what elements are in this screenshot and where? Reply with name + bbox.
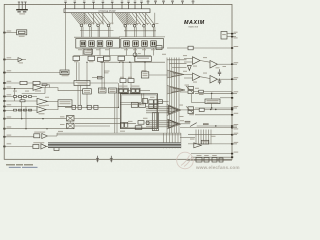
wire comp feeds: [184, 59, 193, 79]
buffer A7: [210, 61, 232, 69]
pin COMP lead: [3, 70, 60, 73]
sample hold box B4: [219, 158, 223, 162]
ground foot right: [23, 11, 26, 12]
svg-text:MAXIM: MAXIM: [184, 20, 205, 26]
transistor Q7: [142, 41, 148, 47]
pin CLK1 lead: [227, 32, 238, 35]
pin CTLI lead: [3, 117, 66, 120]
node junction J1: [119, 62, 120, 63]
current sense box CS2: [135, 56, 152, 61]
transistor Q4: [107, 41, 113, 47]
wire bus vertical left: [15, 89, 26, 129]
comparator hysteresis box: [152, 113, 158, 131]
comparator A8: [193, 73, 211, 81]
wire r11 link: [92, 77, 104, 79]
node junction J4: [21, 96, 22, 97]
pin IN1 lead: [3, 94, 37, 97]
wire reg out: [158, 101, 169, 103]
resistor R11: [98, 76, 103, 79]
capacitor C5: [218, 79, 221, 85]
compensation box U21: [60, 70, 69, 76]
node junction J5b: [42, 118, 43, 119]
resistor row RB2: [128, 79, 134, 83]
pin REF lead: [3, 31, 16, 34]
mux box U24: [143, 99, 148, 104]
transistor pair Q10: [186, 106, 194, 113]
pin OS2 lead: [3, 143, 33, 147]
wire fan F2: [167, 86, 185, 95]
wire A1 feedback: [22, 88, 45, 94]
wire digital col: [115, 83, 119, 133]
node junction J6: [25, 128, 26, 129]
gate driver D8: [152, 25, 155, 37]
cluster box k1: [135, 121, 149, 130]
current sense box CS1: [98, 57, 104, 61]
oscillator U20: [221, 32, 227, 40]
wire A3 out: [46, 107, 58, 110]
wire bundle right: [196, 130, 211, 145]
wire lx sense drop A: [102, 62, 104, 89]
pin tick PGND group right: [147, 2, 195, 5]
wire A1 out: [46, 88, 83, 91]
current source I1: [133, 48, 137, 62]
svg-text:www.elecfans.com: www.elecfans.com: [195, 165, 240, 170]
comparator A6: [193, 57, 211, 65]
wire LX1 drops: [83, 48, 110, 56]
label q10: [189, 114, 194, 115]
IC outline border: [4, 4, 232, 159]
sample hold box B2: [204, 155, 209, 162]
resistor R9: [20, 81, 27, 84]
svg-text:MAX1968: MAX1968: [189, 25, 199, 28]
control core box U28: [120, 94, 157, 129]
comparator A10: [194, 143, 202, 148]
node junction J3: [14, 88, 15, 89]
sense amp box U22: [99, 88, 107, 93]
gate driver D3: [97, 24, 100, 37]
wire band lower bus: [48, 143, 181, 148]
latch pair U26: [121, 123, 128, 128]
wire q10 link: [192, 94, 205, 103]
op-amp A2: [37, 98, 48, 106]
pin tick CPVDD group over charge pump: [64, 2, 143, 9]
wire right low rows: [180, 128, 232, 144]
buffer A11: [42, 134, 57, 139]
capacitor C2: [21, 2, 23, 9]
charge pump U1: [64, 9, 150, 13]
resistor RS2: [88, 56, 95, 60]
wire fan right gate drive: [115, 13, 155, 25]
transistor Q6: [133, 41, 139, 47]
wire fan left gate drive: [71, 13, 111, 24]
right pin ticks and labels: [231, 46, 238, 158]
wire switch out: [70, 119, 120, 127]
wire osc: [145, 62, 167, 75]
capacitor C4: [218, 69, 221, 76]
node LX bus: [74, 55, 152, 57]
buffer U5: [18, 58, 26, 64]
pin FB lead: [3, 87, 33, 90]
gate driver D4: [107, 24, 110, 37]
pin CLK2 lead: [227, 36, 238, 39]
logic block U11: [118, 86, 128, 94]
watermark circle logo: [177, 152, 194, 169]
wire thermal: [77, 62, 119, 83]
bias box U9: [84, 49, 93, 54]
resistor row small r2: [78, 105, 81, 109]
ground foot left: [17, 11, 20, 12]
sample hold box B3: [212, 155, 217, 162]
footnote line 2: [9, 167, 38, 168]
wire fan F4: [167, 119, 181, 129]
wire dac top: [86, 62, 88, 107]
wire center rail drop: [64, 4, 66, 70]
snubber box U27: [156, 46, 162, 50]
pin IN2 lead: [3, 100, 37, 102]
wire rb row: [123, 62, 131, 88]
wire band upper: [57, 133, 181, 136]
sample cap box: [54, 146, 59, 151]
node junction J9: [210, 109, 211, 110]
wire rc2 link: [16, 109, 37, 111]
oscillator box U10: [141, 72, 149, 78]
wire logic bus: [120, 103, 141, 105]
chopper amp U6: [58, 100, 72, 107]
wire bus pillar: [167, 58, 179, 134]
pwm logic U14: [139, 103, 146, 107]
wire q9: [180, 90, 199, 93]
node junction dots bus: [86, 62, 145, 108]
sample box U19: [33, 142, 44, 148]
resistor RS3: [103, 56, 110, 60]
wire A2 out: [48, 100, 59, 102]
pin ITEC lead: [3, 81, 74, 84]
pin OS1 lead: [3, 135, 34, 138]
wire aux right 1: [220, 97, 233, 99]
wire q10 out: [194, 109, 233, 111]
reference divider U16: [205, 99, 220, 104]
switch S2: [67, 123, 75, 129]
resistor row small r4: [94, 105, 98, 109]
wire mid feed lower: [146, 121, 169, 127]
output stage U2 box: [76, 39, 120, 48]
gate driver D5: [124, 25, 127, 37]
capacitor plate bar: [16, 9, 28, 11]
node junction J7: [211, 93, 212, 94]
op-amp A3: [37, 107, 46, 115]
buffer A9: [210, 76, 232, 84]
resistor RS1: [73, 56, 80, 60]
resistor row small r3: [87, 105, 91, 109]
wire aux right 2: [195, 113, 238, 116]
resistor row small r1: [72, 105, 76, 109]
comparator A5: [169, 120, 190, 128]
wire ref row: [195, 93, 232, 108]
ground label: [19, 13, 25, 14]
thermal shutdown U8: [74, 81, 90, 86]
transistor pair Q9: [186, 86, 194, 94]
node rail PWM2: [119, 36, 165, 38]
wire mid feed upper: [146, 107, 169, 113]
buffer A12: [41, 144, 54, 149]
logic block U12: [131, 86, 141, 94]
sense amp box U23: [109, 88, 117, 93]
transistor Q5: [124, 41, 130, 47]
mux box U25: [158, 100, 163, 104]
wire fan drops left: [84, 13, 112, 24]
sample box U18: [34, 132, 45, 138]
logic box U17: [201, 140, 209, 144]
resistor R4: [20, 100, 25, 102]
switch S3: [185, 121, 232, 126]
capacitor C3: [24, 2, 26, 9]
capacitor C1: [18, 2, 20, 9]
wire fan F1: [167, 70, 184, 78]
wire bundle lower pillar: [164, 133, 181, 148]
gate driver D7: [143, 25, 146, 37]
wire gate row link left: [80, 27, 114, 38]
wire fan F3: [167, 105, 181, 116]
resistor chain RC2: [14, 109, 32, 111]
register bank U15: [149, 100, 158, 108]
pin SHDN lead: [3, 57, 18, 60]
resistor R6: [188, 46, 193, 50]
node bus shade: [48, 142, 181, 148]
wire LX2 drops: [127, 48, 154, 56]
pin number labels top: [64, 0, 194, 1]
ground pin GP1: [96, 156, 99, 163]
pin MAXI lead: [3, 127, 66, 130]
transistor Q3: [97, 41, 103, 47]
footnote line 1: [6, 164, 33, 165]
node junction J6b: [46, 128, 47, 129]
wire out TH: [203, 91, 232, 93]
gate driver D6: [133, 25, 136, 37]
ground pin GP2: [110, 156, 113, 163]
wire thermal drops lower: [78, 86, 81, 106]
gate driver D2: [89, 24, 92, 37]
value labels scattered: [13, 23, 226, 140]
node rail PWM1: [74, 36, 120, 38]
wire gate row link right: [124, 27, 156, 37]
node junction J11: [215, 125, 216, 126]
wire pillar taps: [167, 60, 187, 68]
resistor chain RC1: [14, 96, 32, 98]
resistor R8: [199, 108, 204, 111]
voltage reference U4: [17, 30, 27, 37]
resistor R10: [33, 81, 40, 84]
node junction J8: [211, 107, 212, 108]
pin IN3 lead: [3, 104, 37, 107]
op-amp A1: [33, 85, 42, 92]
output stage U3 box: [121, 39, 164, 48]
comparator A4: [169, 106, 188, 114]
wire fan drops right: [127, 13, 155, 25]
bottom right circuit row wire: [186, 154, 232, 161]
node junction J10: [215, 109, 216, 110]
transistor Q1: [80, 41, 86, 47]
wire row link: [65, 106, 118, 108]
resistor row RB1: [120, 79, 126, 83]
wire sense bus: [100, 60, 165, 62]
resistor RS4: [118, 56, 125, 60]
resistor R3 feedback: [42, 84, 50, 88]
resistor R7: [199, 90, 204, 93]
node junction J2: [129, 62, 130, 63]
svg-text:CHARGE PUMP: CHARGE PUMP: [98, 10, 116, 13]
node junction J5: [21, 118, 22, 119]
wire logic link: [128, 91, 150, 104]
diode down D9: [188, 66, 192, 71]
pwm logic U13: [131, 102, 138, 107]
pin GND lead: [3, 110, 16, 112]
transistor Q8: [151, 41, 157, 47]
dac U7: [83, 89, 92, 94]
wire VDD right: [167, 47, 232, 49]
transistor Q2: [89, 41, 95, 47]
switch S1: [67, 116, 75, 122]
sample hold box B1: [196, 155, 202, 162]
wire center link: [75, 122, 136, 124]
gate driver D1: [80, 24, 83, 37]
